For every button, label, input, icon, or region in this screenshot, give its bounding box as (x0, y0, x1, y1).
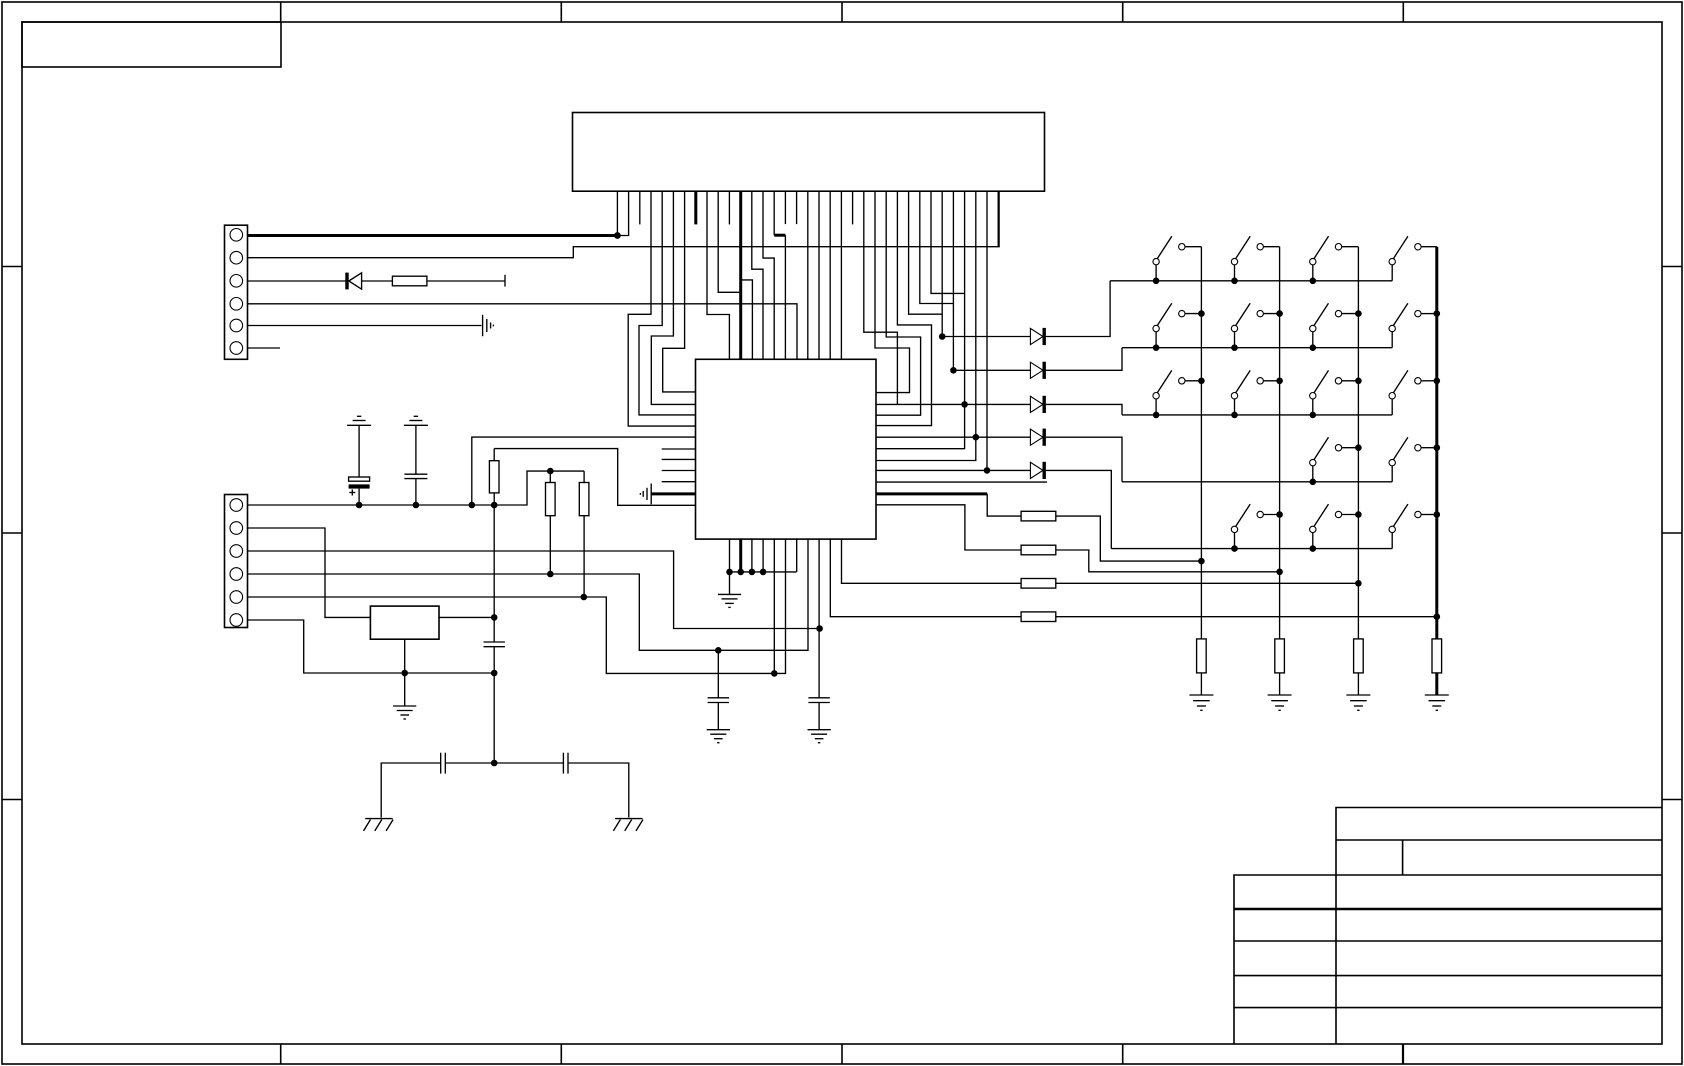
zone tick bottom 2 (560, 1044, 562, 1064)
wire C3 to VCC rail (358, 489, 360, 505)
junction node S2 pivot (1231, 278, 1238, 285)
switch S1 (1153, 236, 1202, 280)
J1 pin circle 2 (230, 251, 243, 264)
wire J2.2 to regulator input (248, 528, 371, 617)
wire J2.5 to lower rail right (248, 539, 786, 673)
switch S4 (1389, 236, 1437, 280)
J3 pin 21 wire to U1 top pin 11 (840, 191, 842, 359)
wire U1 right pin 5 to D4 (876, 436, 1030, 438)
J3 pin 33 wire down through D4 node to U1 right pin 7 (876, 191, 976, 460)
zone tick left 1 (2, 266, 22, 268)
ground symbol below U1 (718, 594, 741, 607)
junction node S16 contact/column3 (1355, 511, 1362, 518)
wire U1 right pin 8 to D5 (876, 469, 1030, 471)
junction node S15 contact/column2 (1276, 511, 1283, 518)
switch S14 (1389, 437, 1437, 482)
junction node S9 pivot (1153, 412, 1160, 419)
wire R11 to ground (1279, 673, 1281, 695)
ground symbol below C7 (808, 730, 831, 743)
wire D5 to key row 5 (1046, 470, 1111, 548)
J3 pin 12 thick wire to U1 top pin 2 (739, 191, 742, 359)
wire U1 right pin 2 to D3 (876, 403, 1030, 405)
signal ground symbol at U1 left (640, 484, 651, 505)
J3 pin 15 wire with thick jog to U1 top pin 6 (773, 191, 775, 235)
J3 pin 1 wire (616, 191, 618, 235)
wire R12 to ground (1357, 673, 1359, 695)
zone tick bottom 5 (1402, 1044, 1404, 1064)
electrolytic capacitor C3 (349, 477, 370, 496)
J3 pin 14 braid wire to U1 top pin 5 (763, 191, 774, 359)
junction node J3.1 (614, 232, 621, 239)
capacitor C6 plates (484, 642, 505, 647)
U1 left thick ground pin wire (651, 492, 695, 495)
J3 pin 32 wire down through D3 node to U1 right pin 6 (876, 191, 965, 449)
junction node S12 contact/column4 (1434, 378, 1441, 385)
revision box top-left (22, 22, 281, 67)
U1 bottom pin 5 wire to rail (773, 539, 775, 673)
title block left extension (1234, 875, 1336, 1044)
switch S7 (1310, 303, 1359, 348)
U1 right thick pin wire to R1 (876, 492, 987, 495)
wire J1.5 to chassis ground (248, 325, 482, 327)
switch S3 (1310, 236, 1359, 280)
J1 pin circle 1 (230, 229, 243, 242)
junction node C6 rail (491, 670, 498, 677)
wire R13 to ground thick (1435, 673, 1438, 695)
wire D6 to R5 (362, 280, 393, 282)
J3 pin 11 stub (728, 191, 730, 224)
J3 pin 28 braid wire to diode column 2 (920, 191, 954, 303)
diode D2 (1030, 362, 1044, 379)
wire J1.4 long to U1 top pin 7 (248, 304, 798, 360)
junction node S5 pivot (1153, 344, 1160, 351)
resistor R6 vertical (489, 461, 499, 493)
junction node VCC riser (469, 502, 476, 509)
zone tick bottom 3 (841, 1044, 843, 1064)
diode D6 cathode bar (345, 273, 348, 290)
junction node S9 contact/column1 (1198, 378, 1205, 385)
J3 pin 9 braid wire to U1 top pin 1 (707, 191, 729, 359)
zone tick top 3 (841, 2, 843, 22)
ground symbol column 2 (1268, 695, 1292, 710)
J3 pin 18 wire to U1 top pin 8 (807, 191, 809, 359)
zone tick right 3 (1662, 799, 1682, 801)
crystal cap C9 plates (441, 753, 446, 774)
wire jog to U1 top pin 3 (741, 280, 753, 359)
junction node ground comb 4 (760, 569, 767, 576)
U1 right NC pin stub (876, 481, 1047, 483)
junction node C7 top (816, 625, 823, 632)
J2 pin circle 3 (230, 545, 243, 558)
key row 5 wire (1111, 548, 1392, 550)
wire C6 bottom to rail and crystal node (493, 647, 495, 763)
switch S17 (1389, 504, 1437, 548)
resistor R5 (392, 276, 427, 286)
crystal rail wire center segment (445, 762, 563, 764)
wire power bar to C4 (415, 425, 417, 474)
wire D2 anode row (953, 369, 1030, 371)
junction node R7 bottom (547, 571, 554, 578)
junction node S13 pivot (1310, 479, 1317, 486)
junction node D2 feed (950, 367, 957, 374)
J3 pin 2 wire (617, 191, 628, 235)
resistor R12 pull-down column 3 (1354, 639, 1364, 673)
junction node R8 bottom (581, 594, 588, 601)
ground symbol below C8 (707, 730, 730, 743)
junction node D5 feed (984, 467, 991, 474)
junction node R1/column1 (1198, 558, 1205, 565)
power bar symbol above C4 (404, 416, 428, 425)
zone tick top 5 (1402, 2, 1404, 22)
key column 2 wire (1279, 247, 1281, 639)
power bar symbol above C3 (347, 416, 371, 425)
U1 left NC stub 2 (662, 458, 696, 460)
switch S8 (1389, 303, 1437, 348)
wire VCC to U1 left pin 5 (472, 437, 696, 505)
junction node R4/column4 (1434, 613, 1441, 620)
J2 pin circle 6 (230, 614, 243, 627)
J3 pin 30 wire down to D1 node (941, 191, 943, 336)
wire J2.1 VCC rail (248, 471, 585, 505)
zone tick left 3 (2, 799, 22, 801)
key row 4 wire (1122, 481, 1392, 483)
junction node S8 contact/column4 (1434, 310, 1441, 317)
resistor R7 vertical (546, 483, 556, 516)
diode D3 (1030, 396, 1044, 413)
switch S16 (1310, 504, 1359, 548)
key column 4 wire thick (1435, 247, 1438, 639)
junction node S7 contact/column3 (1355, 310, 1362, 317)
connector J1 body (225, 225, 248, 359)
title block heavy separator (1234, 908, 1662, 911)
wire R1 to column 1 (1056, 516, 1202, 561)
junction node R2/column2 (1276, 569, 1283, 576)
junction node C8 top (715, 647, 722, 654)
wire R7 bottom to J2.4 row (549, 516, 551, 574)
zone tick top 4 (1122, 2, 1124, 22)
wire thick pin corner down to R1 (987, 494, 1021, 516)
wire R6 top lead (493, 449, 495, 461)
wire D1 anode row (942, 336, 1030, 338)
wire R7 top lead (549, 471, 551, 482)
U1 right pin wire to R2 (876, 505, 1021, 550)
switch S12 (1389, 370, 1437, 415)
earth ground right (613, 819, 643, 831)
MCU U1 body (696, 359, 877, 539)
J3 pin 3 stub (639, 191, 641, 224)
junction node ground comb 3 (749, 569, 756, 576)
title block row line (1234, 975, 1662, 977)
switch S13 (1310, 437, 1359, 482)
junction node R6/VCC (491, 502, 498, 509)
capacitor C8 plates (708, 698, 729, 703)
zone tick top 1 (280, 2, 282, 22)
U1 bottom ground pins 1-4 junction comb (730, 539, 797, 572)
diode D4 (1030, 429, 1044, 446)
junction node S5 contact/column1 (1198, 310, 1205, 317)
key row 1 wire (1110, 280, 1392, 282)
wire U2 output to C6 node (439, 616, 494, 618)
title block row line (1336, 839, 1662, 841)
zone tick right 1 (1662, 266, 1682, 268)
junction node U1 pin5 rail (771, 670, 778, 677)
J3 pin 13 braid wire to U1 top pin 4 (752, 191, 763, 359)
resistor R13 pull-down column 4 (1432, 639, 1442, 673)
J3 pin 19 wire to U1 top pin 9 (818, 191, 820, 359)
J3 pin 26 braid wire to U1 right pin 4 (876, 191, 932, 425)
wire jog down to U1 top pin 6 (784, 235, 786, 359)
connector J3 body (top header) (573, 113, 1045, 192)
wire power bar to C3 (358, 425, 360, 477)
switch S9 (1153, 370, 1202, 415)
J3 pin 5 hook wire to U1 left pin 3 (639, 191, 696, 415)
junction node S17 contact/column4 (1434, 511, 1441, 518)
J3 pin 10 braid wire (718, 191, 741, 292)
diode D5 (1030, 462, 1044, 479)
title block cell divider (1402, 840, 1404, 875)
J3 pin 7 hook wire to U1 left pin 1 (663, 191, 696, 392)
resistor R1 (1021, 511, 1056, 521)
wire J1.1 thick to J3.1 node (248, 234, 618, 237)
junction node S10 contact/column2 (1276, 378, 1283, 385)
wire R3 to column 3 (1056, 582, 1359, 584)
U1 bottom pin 11 wire to R3 and key column 3 (842, 539, 1022, 583)
wire R6 bottom through VCC rail down to regulator output and crystal rail (493, 493, 495, 642)
title block row line (1234, 1007, 1662, 1009)
key column 1 wire (1200, 247, 1202, 639)
J1 pin circle 4 (230, 298, 243, 311)
junction node D3 feed (961, 401, 968, 408)
wire C4 to VCC rail (415, 479, 417, 505)
junction node U2 ground rail (401, 670, 408, 677)
capacitor C7 plates (808, 698, 829, 703)
switch S5 (1153, 303, 1202, 348)
junction node S15 pivot (1231, 545, 1238, 552)
junction node R7 top (547, 468, 554, 475)
J2 pin circle 2 (230, 522, 243, 535)
zone tick right 2 (1662, 532, 1682, 534)
J3 pin 20 wire to U1 top pin 10 (829, 191, 831, 359)
ground symbol below U2 (393, 706, 416, 719)
resistor R2 (1021, 545, 1056, 555)
switch S6 (1231, 303, 1279, 348)
resistor R11 pull-down column 2 (1275, 639, 1285, 673)
junction node ground comb 1 (726, 569, 733, 576)
crystal rail wire right segment (568, 763, 629, 818)
end bar terminal (504, 275, 506, 287)
wire R8 top lead (583, 471, 585, 482)
junction node S6 contact/column2 (1276, 310, 1283, 317)
J2 pin circle 1 (230, 499, 243, 512)
J3 pin 16 stub (784, 191, 786, 224)
regulator U2 body (370, 606, 439, 639)
wire C7 to ground (818, 703, 820, 730)
J3 pin 8 thick stub (694, 191, 697, 224)
J3 pin 4 hook wire to U1 left pin 4 (628, 191, 695, 426)
wire R6 top to U1 left pin 7 (494, 449, 695, 506)
J1 pin circle 6 (230, 342, 243, 355)
J3 pin 31 wire down to D2 node (952, 191, 954, 370)
junction node C4/VCC (413, 502, 420, 509)
U1 bottom pin 9 wire through C7 node (818, 539, 820, 698)
junction node D1 feed (939, 333, 946, 340)
U1 bottom pin 10 wire to R4 and key column 4 (830, 539, 1021, 617)
junction node S13 contact/column3 (1355, 444, 1362, 451)
wire J2.6 to lower rail left (248, 620, 495, 673)
wire U2 ground lead (404, 639, 406, 673)
title block bottom tick (1402, 1044, 1404, 1064)
wire U2 ground to symbol (404, 673, 406, 706)
crystal cap C10 plates (563, 753, 568, 774)
resistor R3 (1021, 579, 1056, 589)
J3 pin 25 braid wire to U1 right pin 3 (876, 191, 921, 415)
zone tick bottom 1 (280, 1044, 282, 1064)
junction node S14 contact/column4 (1434, 444, 1441, 451)
wire R2 to column 2 (1056, 550, 1280, 572)
capacitor C4 plates (404, 474, 427, 478)
junction node S10 pivot (1231, 412, 1238, 419)
resistor R4 (1021, 612, 1056, 622)
diode D6 triangle (349, 273, 362, 289)
junction node S16 pivot (1310, 545, 1317, 552)
resistor R8 vertical (579, 483, 589, 516)
junction node R3/column3 (1355, 580, 1362, 587)
junction node S1 pivot (1153, 278, 1160, 285)
thick jog bar (774, 234, 785, 237)
switch S11 (1310, 370, 1359, 415)
title block row line (1234, 940, 1662, 942)
J3 pin 23 braid wire (864, 191, 898, 404)
J3 pin 27 braid wire to diode column 1 (909, 191, 943, 314)
junction node S6 pivot (1231, 344, 1238, 351)
J3 pin 24 braid wire to U1 right pin 1 (875, 191, 910, 392)
junction node D4 feed (973, 434, 980, 441)
junction node S3 pivot (1310, 278, 1317, 285)
diode D1 (1030, 328, 1044, 345)
wire J1.2 long bus to J3.35 (248, 191, 1000, 258)
J3 pin 6 hook wire to U1 left pin 2 (651, 191, 695, 404)
wire D4 to key row 4 (1046, 437, 1122, 482)
junction node C3/VCC (356, 502, 363, 509)
wire to ground below U1 (729, 572, 731, 595)
J3 pin 17 stub (796, 191, 798, 224)
wire R10 to ground (1200, 673, 1202, 695)
U1 left NC stub 4 (662, 481, 696, 483)
junction node U2 output (491, 614, 498, 621)
resistor R10 pull-down column 1 (1197, 639, 1207, 673)
J1 pin circle 5 (230, 319, 243, 332)
junction node S7 pivot (1310, 344, 1317, 351)
crystal rail wire left segment (381, 763, 441, 818)
earth ground left (364, 819, 394, 831)
wire D3 to key row 3 (1046, 404, 1122, 415)
wire J1.3 to diode D6 (248, 280, 348, 282)
ground symbol column 4 (1425, 695, 1449, 710)
wire D1 to key row 1 (1046, 281, 1110, 337)
switch S15 (1231, 504, 1279, 548)
J3 pin 29 braid wire to diode column 3 (931, 191, 965, 293)
junction node ground comb 2 (737, 569, 744, 576)
key row 3 wire (1122, 414, 1392, 416)
J2 pin circle 4 (230, 568, 243, 581)
J3 pin 34 wire down to D5 node (986, 191, 988, 470)
wire C8 to ground (717, 703, 719, 730)
U1 left NC stub 3 (662, 470, 696, 472)
switch S10 (1231, 370, 1279, 415)
junction node S11 contact/column3 (1355, 378, 1362, 385)
J1 pin circle 3 (230, 275, 243, 288)
junction node S11 pivot (1310, 412, 1317, 419)
chassis ground symbol (rotated) (483, 315, 494, 336)
wire J1.6 stub (248, 347, 281, 349)
wire C8 top lead from J2.4 line (717, 650, 719, 698)
wire R5 to end stub (427, 280, 505, 282)
title block row line (1336, 874, 1662, 876)
zone tick top 2 (560, 2, 562, 22)
junction node crystal rail (491, 760, 498, 767)
wire D2 to key row 2 (1046, 348, 1122, 371)
connector J2 body (225, 495, 248, 628)
switch S2 (1231, 236, 1279, 280)
zone tick left 2 (2, 532, 22, 534)
J3 pin 22 stub (852, 191, 854, 224)
ground symbol column 1 (1189, 695, 1213, 710)
zone tick bottom 4 (1122, 1044, 1124, 1064)
wire R4 to column 4 (1056, 616, 1437, 618)
key column 3 wire (1357, 247, 1359, 639)
J3 pin 35 wire joining bus (997, 191, 999, 247)
wire J2.4 to U1 bottom pin 8 (248, 539, 809, 650)
U1 left NC stub 1 (662, 448, 696, 450)
wire R8 bottom to J2.5 row (583, 516, 585, 597)
key row 2 wire (1122, 347, 1392, 349)
title block outline (1336, 808, 1662, 1045)
wire J2.3 to C7 node (248, 551, 820, 629)
ground symbol column 3 (1346, 695, 1370, 710)
J2 pin circle 5 (230, 591, 243, 604)
